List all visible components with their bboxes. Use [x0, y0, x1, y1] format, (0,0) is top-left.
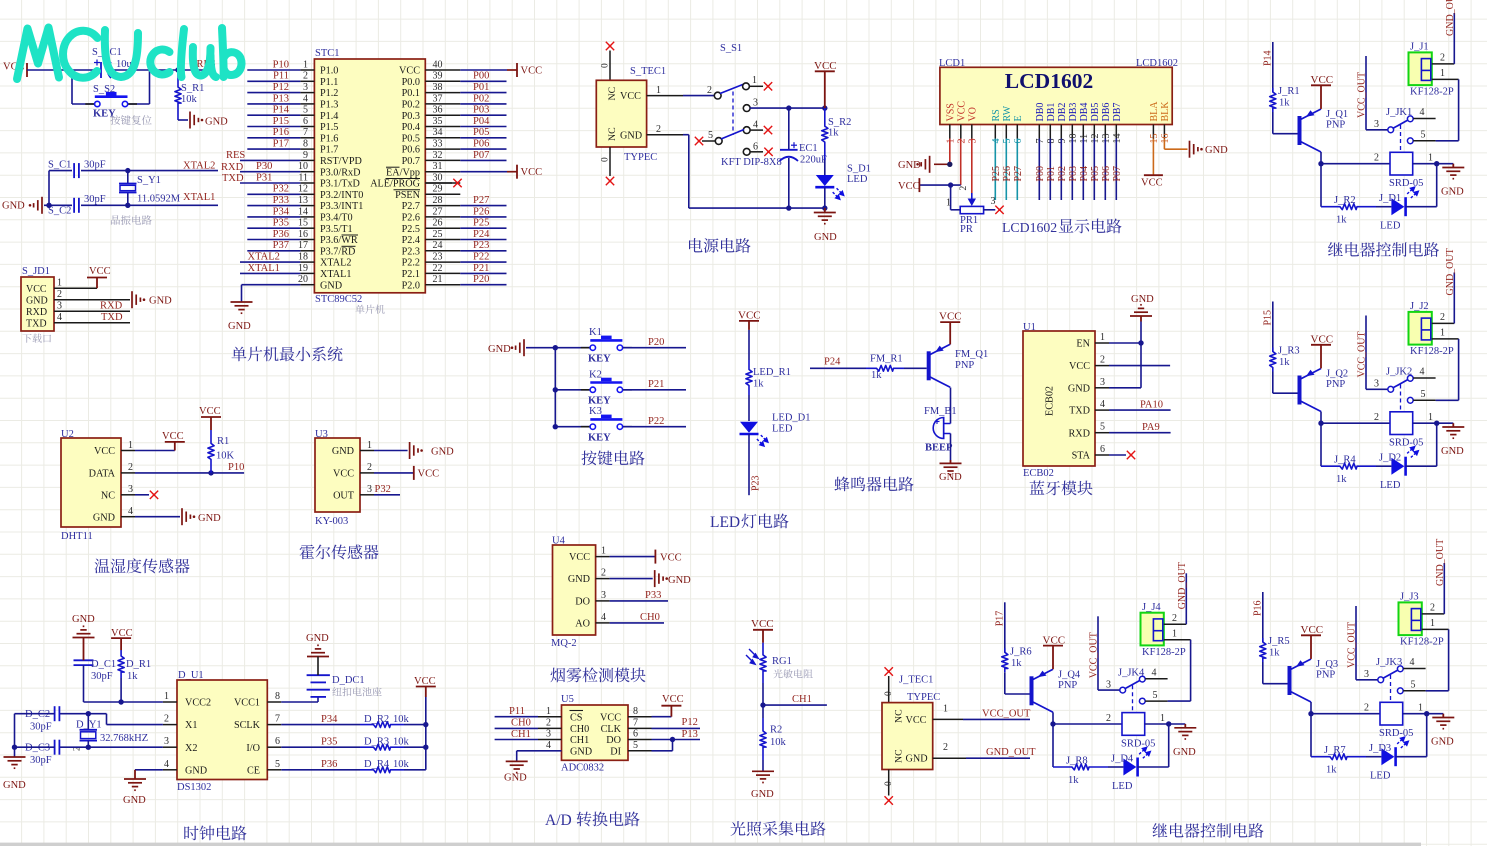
power flag VCC (buzzer): [939, 311, 962, 345]
svg-text:24: 24: [433, 240, 443, 251]
wire pin1 VCC: [610, 556, 656, 558]
svg-text:VCC: VCC: [1311, 334, 1334, 346]
svg-text:P25: P25: [991, 166, 1002, 182]
svg-text:VCC: VCC: [399, 66, 420, 77]
svg-text:5: 5: [1100, 422, 1105, 433]
svg-text:P2.1: P2.1: [402, 269, 420, 280]
svg-text:GND: GND: [504, 773, 527, 784]
svg-text:3: 3: [546, 729, 551, 740]
svg-text:VCC1: VCC1: [234, 698, 260, 709]
LCD1 pin 15 BLA: [1149, 101, 1160, 144]
wire net P07: [460, 150, 506, 161]
svg-text:1k: 1k: [1279, 98, 1290, 109]
svg-text:S_S1: S_S1: [720, 43, 742, 54]
svg-text:16: 16: [298, 229, 308, 240]
svg-text:RW: RW: [1002, 105, 1013, 121]
STC1 pin 3 P1.2: [300, 82, 338, 99]
svg-text:GND: GND: [228, 321, 251, 332]
svg-text:4: 4: [164, 759, 169, 770]
U5 pin 3: [538, 729, 562, 740]
STC1 pin 30 ALE/PROG: [370, 172, 460, 189]
svg-text:P1.1: P1.1: [320, 77, 338, 88]
svg-text:R1: R1: [217, 436, 229, 447]
svg-text:P21: P21: [473, 263, 489, 274]
annotation reset-key gray: [110, 115, 151, 125]
svg-text:GND: GND: [906, 754, 928, 765]
svg-text:P36: P36: [321, 759, 337, 770]
ground (MCU): [228, 302, 253, 332]
wire net P14: [247, 105, 300, 116]
svg-text:CH0: CH0: [511, 718, 531, 729]
svg-text:1: 1: [656, 85, 661, 96]
wire net P03: [460, 105, 506, 116]
ground (crystal): [2, 197, 49, 214]
relay switch J_JK4: [1118, 667, 1168, 711]
U4 pin 3: [596, 590, 610, 601]
wire J_J3 pin1 to JK pin5: [1422, 618, 1449, 691]
svg-text:9: 9: [1057, 139, 1068, 144]
adc U5 ADC0832 body: [561, 694, 628, 774]
U2 pin1 wire VCC: [121, 440, 175, 451]
U3 pin1 wire GND: [360, 440, 408, 451]
svg-text:J_R7: J_R7: [1324, 745, 1346, 756]
svg-text:S_S2: S_S2: [93, 84, 115, 95]
wire pin5 CE net P36: [281, 759, 360, 770]
svg-text:P3.4/T0: P3.4/T0: [320, 213, 353, 224]
svg-text:EN: EN: [1076, 339, 1090, 350]
svg-text:VCC: VCC: [521, 66, 543, 77]
svg-text:LCD1602: LCD1602: [1005, 69, 1093, 93]
LED LED_D1: [740, 413, 811, 449]
ground (MQ-2): [655, 570, 691, 587]
svg-text:NC: NC: [607, 127, 618, 141]
svg-text:2: 2: [943, 742, 948, 753]
svg-text:6: 6: [633, 729, 638, 740]
svg-text:11: 11: [1079, 134, 1090, 144]
svg-text:P35: P35: [321, 736, 337, 747]
svg-text:4: 4: [601, 612, 606, 623]
LCD1 pin 2 VCC: [956, 101, 967, 144]
svg-text:8: 8: [275, 691, 280, 702]
svg-text:LED: LED: [1380, 480, 1401, 491]
STC1 pin 16 P3.6/WR: [298, 229, 358, 246]
wire collector to node: [1052, 712, 1054, 724]
svg-text:1: 1: [1172, 628, 1177, 639]
LCD1 pin 5 RW: [1002, 105, 1013, 143]
svg-text:P3.7/RD: P3.7/RD: [320, 246, 355, 257]
svg-text:14: 14: [298, 206, 308, 217]
svg-text:1: 1: [1428, 153, 1433, 164]
LCD1 pin 16 BLK: [1160, 101, 1171, 144]
STC1 pin 33 P0.6: [402, 139, 461, 156]
STC1 pin 39 P0.0: [402, 71, 461, 88]
caption A/D convert circuit: [545, 812, 572, 829]
svg-text:J_TEC1: J_TEC1: [899, 675, 933, 686]
wire LCD pin3 VO to pot wiper: [971, 139, 973, 194]
svg-text:X1: X1: [185, 720, 197, 731]
svg-text:40: 40: [433, 59, 443, 70]
svg-text:P12: P12: [682, 717, 698, 728]
overline PSEN (pin29): [394, 189, 421, 191]
caption bluetooth module: [1030, 480, 1093, 495]
svg-text:39: 39: [433, 71, 443, 82]
svg-text:P27: P27: [1013, 166, 1024, 182]
svg-text:P0.3: P0.3: [402, 111, 420, 122]
svg-text:S_TEC1: S_TEC1: [630, 66, 666, 77]
caption light collect circuit: [731, 821, 826, 836]
overline RD (pin17): [342, 245, 356, 247]
svg-text:J_D2: J_D2: [1379, 453, 1401, 464]
ground (relay 1): [1437, 164, 1465, 198]
svg-text:K1: K1: [589, 327, 602, 338]
svg-text:GND: GND: [814, 232, 837, 243]
svg-text:RS: RS: [991, 109, 1002, 121]
svg-text:GND: GND: [568, 574, 590, 585]
svg-text:4: 4: [128, 506, 133, 517]
no-ERC TEC1 bottom: [601, 147, 615, 185]
STC1 pin 5 P1.4: [300, 105, 338, 122]
svg-text:P11: P11: [273, 71, 289, 82]
svg-text:TYPEC: TYPEC: [907, 692, 940, 703]
svg-text:7: 7: [633, 718, 638, 729]
U4 pin 1: [596, 546, 610, 557]
svg-text:14: 14: [1112, 134, 1123, 144]
svg-text:DHT11: DHT11: [61, 531, 93, 542]
svg-text:1: 1: [1440, 68, 1445, 79]
svg-text:P2.6: P2.6: [402, 213, 420, 224]
svg-text:FM_R1: FM_R1: [870, 354, 903, 365]
wire net P24: [460, 229, 506, 240]
svg-text:PNP: PNP: [1326, 120, 1345, 131]
STC1 pin 9 RST/VPD: [300, 150, 362, 167]
svg-text:VCC: VCC: [1043, 634, 1066, 646]
switch S_S1 pin 6: [743, 141, 772, 156]
annotation download port: [22, 334, 51, 343]
svg-text:KEY: KEY: [588, 354, 611, 365]
svg-text:6: 6: [1100, 444, 1105, 455]
svg-text:3: 3: [57, 301, 62, 312]
key bus: [553, 345, 558, 429]
svg-text:J_R8: J_R8: [1066, 755, 1088, 766]
svg-text:10k: 10k: [393, 736, 410, 747]
svg-text:LED: LED: [772, 424, 793, 435]
wire J_J1 pin1 to JK pin5: [1432, 68, 1459, 141]
relay coil J_JK1 SRD-05: [1321, 152, 1437, 189]
wire net P01: [460, 82, 506, 93]
wire pin2 X1: [60, 711, 163, 725]
wire net P23: [460, 240, 506, 251]
svg-text:P3.2/INT0: P3.2/INT0: [320, 190, 363, 201]
svg-text:J_R6: J_R6: [1010, 646, 1032, 657]
wire LED to node: [1406, 423, 1437, 466]
svg-text:P02: P02: [1057, 166, 1068, 182]
wire pin2 net CH0: [495, 718, 538, 729]
connector S_JD1 (download port): [21, 266, 54, 331]
svg-text:P20: P20: [648, 337, 664, 348]
wire cap bus to GND: [12, 714, 17, 757]
svg-text:VCC: VCC: [662, 694, 684, 705]
svg-text:8: 8: [1046, 139, 1057, 144]
LCD1 pin 11 DB4: [1079, 103, 1090, 144]
svg-text:29: 29: [433, 184, 443, 195]
power flag VCC (relay 4): [1043, 634, 1066, 669]
overline EA (pin31): [386, 166, 400, 168]
STC1 pin 8 P1.7: [300, 139, 338, 156]
svg-text:1: 1: [1418, 703, 1423, 714]
svg-text:P30: P30: [256, 161, 272, 172]
svg-text:P13: P13: [273, 93, 289, 104]
wire net P21: [460, 263, 506, 274]
connector J_J3 KF128-2P: [1399, 592, 1444, 648]
LCD1 pin 7 DB0: [1035, 103, 1046, 144]
svg-text:1: 1: [1440, 328, 1445, 339]
svg-text:P22: P22: [473, 252, 489, 263]
svg-text:4: 4: [991, 139, 1002, 144]
svg-text:P03: P03: [1068, 166, 1079, 182]
svg-text:P26: P26: [1002, 166, 1013, 182]
svg-text:1k: 1k: [828, 128, 839, 139]
svg-text:P04: P04: [473, 116, 490, 127]
D_U1 pin 5: [267, 759, 281, 770]
svg-text:LED: LED: [1380, 221, 1401, 232]
wire net P15: [1263, 302, 1274, 352]
wire LED to node: [1138, 724, 1169, 767]
U4 pin 4: [596, 612, 610, 623]
svg-text:6: 6: [753, 141, 758, 152]
svg-text:4: 4: [303, 93, 308, 104]
svg-text:3: 3: [967, 139, 978, 144]
svg-text:VCC_OUT: VCC_OUT: [982, 709, 1031, 720]
svg-text:5: 5: [1153, 690, 1158, 701]
wire pin8 VCC1 to battery: [281, 698, 318, 703]
svg-text:TXD: TXD: [101, 312, 123, 323]
D_U1 pin 8: [267, 691, 281, 702]
svg-text:P05: P05: [1090, 166, 1101, 182]
svg-text:D_C1: D_C1: [91, 659, 116, 670]
wire J_J2 pin1 to JK pin5: [1432, 328, 1459, 401]
svg-text:VCC: VCC: [898, 181, 920, 192]
wire pin3 net P33: [610, 590, 668, 601]
caption MCU minimal system: [232, 346, 343, 361]
wire VCC_OUT stub: [1357, 316, 1368, 390]
svg-text:5: 5: [303, 105, 308, 116]
wire net P05 (LCD pin 12): [1090, 139, 1101, 201]
svg-text:XTAL2: XTAL2: [248, 252, 280, 263]
svg-text:EA/Vpp: EA/Vpp: [386, 167, 420, 178]
svg-text:PA9: PA9: [1142, 422, 1160, 433]
svg-text:P3.3/INT1: P3.3/INT1: [320, 201, 363, 212]
svg-text:P06: P06: [473, 139, 489, 150]
resistor J_R4 1k: [1321, 455, 1376, 486]
svg-text:2: 2: [707, 85, 712, 96]
svg-text:P33: P33: [273, 195, 289, 206]
wire to XTAL1 label: [128, 192, 218, 205]
svg-text:CLK: CLK: [601, 724, 622, 735]
J_TEC1 pin2 net GND_OUT: [933, 742, 1036, 758]
svg-text:S_Y1: S_Y1: [137, 175, 161, 186]
svg-text:NC: NC: [101, 491, 115, 502]
wire pin5 RXD net PA9: [1109, 422, 1171, 433]
wire pin6 I/O net P35: [281, 736, 360, 747]
svg-text:I/O: I/O: [246, 743, 260, 754]
wire pin4 to GND: [517, 751, 562, 762]
wire net P02: [460, 93, 506, 104]
svg-text:8: 8: [633, 706, 638, 717]
svg-text:DB7: DB7: [1112, 103, 1123, 122]
wire LCD pin1 VSS to GND: [949, 139, 951, 165]
svg-text:27: 27: [433, 206, 443, 217]
svg-text:1k: 1k: [1326, 765, 1337, 776]
svg-text:P0.4: P0.4: [402, 122, 420, 133]
relay coil J_JK2 SRD-05: [1321, 412, 1437, 449]
svg-text:15: 15: [298, 218, 308, 229]
LCD1 pin 1 VSS: [945, 103, 956, 143]
svg-text:KF128-2P: KF128-2P: [1142, 647, 1186, 658]
wire net P12: [247, 82, 300, 93]
svg-text:J_J4: J_J4: [1142, 602, 1161, 613]
svg-text:10: 10: [1068, 134, 1079, 144]
power flag VCC (relay 1): [1311, 74, 1334, 109]
svg-text:GND: GND: [570, 746, 592, 757]
no-ERC J_TEC1 top: [884, 667, 894, 702]
svg-text:P22: P22: [648, 416, 664, 427]
svg-text:RXD: RXD: [1068, 428, 1090, 439]
svg-text:VCC: VCC: [738, 310, 761, 322]
resistor D_R2 10k: [360, 714, 426, 728]
wire pin1 net P11: [495, 706, 538, 717]
wire net P27: [460, 195, 506, 206]
svg-text:0: 0: [601, 157, 611, 162]
STC1 pin 14 P3.4/T0: [298, 206, 353, 223]
LCD1 pin 6 E: [1013, 115, 1024, 143]
svg-text:17: 17: [298, 240, 308, 251]
wire pin4 net CH0: [610, 612, 664, 623]
svg-text:P16: P16: [273, 127, 289, 138]
svg-text:P07: P07: [1112, 166, 1123, 182]
svg-text:2: 2: [1440, 53, 1445, 64]
wire node down to resistor J_R4: [1320, 423, 1322, 466]
svg-text:32.768kHZ: 32.768kHZ: [100, 733, 148, 744]
svg-text:34: 34: [433, 127, 443, 138]
svg-text:TXD: TXD: [26, 319, 47, 330]
power flag VCC (D_R1): [111, 628, 133, 650]
svg-text:KF128-2P: KF128-2P: [1410, 346, 1454, 357]
power flag VCC (DHT11): [162, 431, 185, 451]
U5 pin 6: [628, 729, 652, 740]
svg-text:12: 12: [1090, 134, 1101, 144]
wire net P03 (LCD pin 10): [1068, 139, 1079, 201]
capacitor D_C3 30pF: [15, 740, 60, 766]
svg-text:J_R2: J_R2: [1334, 195, 1356, 206]
svg-text:12: 12: [298, 184, 308, 195]
pull-up bus to VCC: [423, 697, 428, 770]
wire net CH1: [763, 694, 827, 705]
relay switch J_JK3: [1376, 657, 1426, 701]
svg-text:P14: P14: [1263, 50, 1274, 66]
svg-text:4: 4: [1420, 367, 1425, 378]
svg-text:3: 3: [1374, 379, 1379, 390]
connector J_TEC1 TYPEC: [882, 675, 940, 770]
svg-text:P06: P06: [1101, 166, 1112, 182]
svg-text:XTAL2: XTAL2: [183, 161, 215, 172]
D_U1 pin 7: [267, 714, 281, 725]
svg-text:2: 2: [1364, 703, 1369, 714]
svg-text:J_D1: J_D1: [1379, 193, 1401, 204]
svg-text:P2.4: P2.4: [402, 235, 420, 246]
resistor J_R6 1k: [1002, 646, 1032, 694]
wire VCC to resistor: [748, 330, 750, 360]
wire rail pin3 to VCC node: [786, 105, 827, 110]
svg-text:J_R5: J_R5: [1268, 636, 1290, 647]
svg-text:S_C2: S_C2: [48, 206, 71, 217]
svg-text:5: 5: [275, 759, 280, 770]
pin 3 wire RXD: [54, 301, 130, 312]
svg-text:LED: LED: [710, 514, 740, 531]
crystal S_Y1 11.0592M: [119, 171, 181, 206]
svg-text:3: 3: [1100, 377, 1105, 388]
svg-text:3: 3: [1374, 119, 1379, 130]
connector J_J1 KF128-2P: [1409, 42, 1454, 98]
svg-text:BLA: BLA: [1149, 101, 1160, 122]
power flag VCC (reset rail): [3, 62, 27, 78]
U3 pin2 wire VCC: [360, 462, 414, 473]
svg-text:19: 19: [298, 263, 308, 274]
svg-text:1: 1: [367, 440, 372, 451]
svg-text:P17: P17: [995, 611, 1006, 627]
svg-text:P3.1/TxD: P3.1/TxD: [320, 179, 360, 190]
svg-text:P1.4: P1.4: [320, 111, 338, 122]
svg-text:P2.7: P2.7: [402, 201, 420, 212]
STC1 pin 6 P1.5: [300, 116, 338, 133]
svg-text:D_DC1: D_DC1: [332, 675, 365, 686]
D_U1 pin 6: [267, 736, 281, 747]
svg-text:VCC: VCC: [660, 553, 682, 564]
svg-text:5: 5: [708, 130, 713, 141]
STC1 pin 26 P2.5: [402, 218, 461, 235]
ground (KY-003): [410, 442, 455, 459]
svg-text:LED: LED: [1370, 771, 1391, 782]
svg-text:GND: GND: [898, 160, 921, 171]
svg-text:1k: 1k: [1269, 648, 1280, 659]
switch S_S1 pin 5 (common 2): [695, 130, 744, 146]
svg-text:LCD1602: LCD1602: [1002, 220, 1057, 235]
STC1 pin 31 EA/Vpp: [386, 161, 460, 178]
U5 pin 8: [628, 706, 652, 717]
svg-text:DB4: DB4: [1079, 103, 1090, 122]
svg-text:J_D3: J_D3: [1369, 743, 1391, 754]
resistor J_R7 1k: [1311, 745, 1366, 776]
wire VCC to cap: [27, 69, 101, 71]
STC1 pin 24 P2.3: [402, 240, 461, 257]
caption LCD1602 display circuit: [1002, 220, 1057, 235]
svg-text:DO: DO: [606, 735, 621, 746]
svg-text:9: 9: [303, 150, 308, 161]
svg-text:1: 1: [164, 691, 169, 702]
svg-text:DATA: DATA: [89, 469, 116, 480]
svg-text:P2.5: P2.5: [402, 224, 420, 235]
svg-text:30pF: 30pF: [84, 160, 106, 171]
wire J_J2 pin2 GND_OUT: [1432, 248, 1456, 323]
svg-text:1: 1: [1160, 713, 1165, 724]
pin 1 wire to VCC: [54, 278, 97, 289]
STC1 pin 21 P2.0: [402, 274, 461, 291]
svg-text:5: 5: [633, 740, 638, 751]
wire net P00 (LCD pin 7): [1035, 139, 1046, 201]
svg-text:DB6: DB6: [1101, 103, 1112, 122]
svg-text:2: 2: [1374, 153, 1379, 164]
svg-text:P25: P25: [473, 218, 489, 229]
wire net RXD/P30 (pin10): [221, 161, 300, 173]
